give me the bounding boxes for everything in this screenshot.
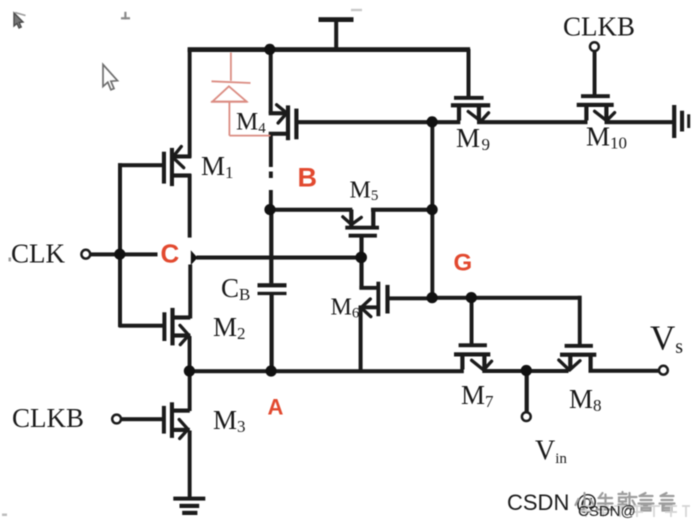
- svg-text:M8: M8: [569, 384, 602, 415]
- svg-text:M4: M4: [236, 109, 266, 137]
- svg-text:CLKB: CLKB: [12, 403, 84, 433]
- svg-text:CB: CB: [221, 273, 250, 304]
- svg-text:M7: M7: [461, 380, 494, 411]
- svg-text:M1: M1: [201, 151, 234, 182]
- svg-text:C: C: [161, 239, 180, 269]
- svg-text:M2: M2: [213, 312, 246, 343]
- svg-text:CSDN@: CSDN@: [578, 503, 636, 520]
- svg-text:M6: M6: [331, 295, 360, 322]
- svg-text:G: G: [454, 250, 473, 277]
- svg-text:CLKB: CLKB: [563, 12, 635, 42]
- svg-text:B: B: [298, 163, 318, 193]
- svg-text:A: A: [268, 395, 284, 420]
- svg-text:M10: M10: [586, 122, 627, 153]
- svg-text:Vin: Vin: [535, 436, 567, 468]
- svg-text:M3: M3: [213, 405, 246, 436]
- svg-text:M9: M9: [456, 123, 490, 154]
- svg-text:Vs: Vs: [650, 319, 683, 359]
- svg-text:M5: M5: [350, 178, 379, 205]
- svg-text:CLK: CLK: [11, 239, 66, 269]
